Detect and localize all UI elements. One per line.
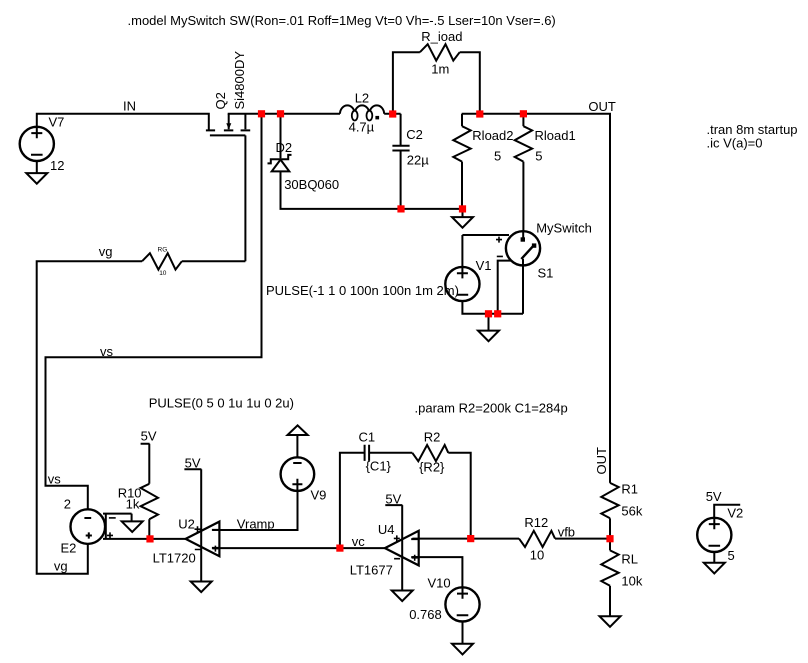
svg-text:Rload2: Rload2 xyxy=(472,128,513,143)
capacitor C1 xyxy=(365,445,370,461)
junction C2 bottom xyxy=(397,205,404,212)
svg-text:OUT: OUT xyxy=(588,99,616,114)
wire U4 supply xyxy=(385,505,402,590)
ground RL xyxy=(600,616,621,627)
svg-text:vs: vs xyxy=(100,344,114,359)
junction V1 rail ground xyxy=(485,310,492,317)
svg-text:D2: D2 xyxy=(276,140,293,155)
wire D2 branch xyxy=(281,114,463,209)
wire R2 to vfb branch xyxy=(448,453,470,539)
transistor Q2 xyxy=(206,114,250,136)
svg-text:12: 12 xyxy=(50,158,64,173)
wire V1 bottom rail xyxy=(462,301,523,314)
wire RL bottom lead xyxy=(609,586,611,616)
svg-text:MySwitch: MySwitch xyxy=(536,221,592,236)
svg-text:0.768: 0.768 xyxy=(409,607,442,622)
svg-text:10: 10 xyxy=(159,270,167,277)
resistor R1 xyxy=(601,483,618,518)
phase dot L2 xyxy=(375,116,379,120)
svg-text:10k: 10k xyxy=(621,573,642,588)
junction R_ioad / rail xyxy=(476,110,483,117)
svg-text:R1: R1 xyxy=(621,482,638,497)
wire OUT rail xyxy=(462,114,610,483)
svg-text:V10: V10 xyxy=(428,576,451,591)
svg-text:LT1677: LT1677 xyxy=(350,562,393,577)
junction S1 control minus xyxy=(494,310,501,317)
wire E2 control minus to ground xyxy=(131,514,133,522)
svg-text:C2: C2 xyxy=(406,127,423,142)
svg-text:vs: vs xyxy=(48,472,62,487)
svg-text:U4: U4 xyxy=(378,522,395,537)
voltage source V2 xyxy=(697,518,731,552)
dependent source E2 xyxy=(71,509,132,544)
svg-text:4.7µ: 4.7µ xyxy=(349,119,375,134)
junction vfb xyxy=(606,535,613,542)
svg-text:R12: R12 xyxy=(524,515,548,530)
svg-text:5V: 5V xyxy=(141,428,157,443)
wire U2 supply xyxy=(184,469,201,581)
ground V2 xyxy=(704,563,725,574)
wire V1 ground stub xyxy=(488,314,490,331)
wire feedback vc to C1 xyxy=(340,453,364,548)
svg-text:2: 2 xyxy=(64,497,71,512)
wire S1 control minus xyxy=(498,261,511,314)
svg-text:.param R2=200k C1=284p: .param R2=200k C1=284p xyxy=(415,401,568,416)
svg-text:1k: 1k xyxy=(126,497,140,512)
svg-text:E2: E2 xyxy=(61,540,77,555)
svg-text:Si4800DY: Si4800DY xyxy=(232,51,247,110)
svg-text:V2: V2 xyxy=(727,505,743,520)
power flag arrow V9 xyxy=(288,425,308,435)
svg-text:Vramp: Vramp xyxy=(237,517,275,532)
svg-text:V1: V1 xyxy=(476,258,492,273)
svg-text:OUT: OUT xyxy=(594,447,609,475)
wire V1 top lead xyxy=(461,235,463,267)
svg-text:.model MySwitch SW(Ron=.01 Rof: .model MySwitch SW(Ron=.01 Roff=1Meg Vt=… xyxy=(128,13,556,28)
wire S1 control plus xyxy=(462,234,509,236)
ground output rail xyxy=(452,217,473,228)
voltage source V10 xyxy=(445,587,479,621)
wire U4 inverting input to R12 xyxy=(412,538,519,540)
svg-text:5V: 5V xyxy=(385,491,401,506)
ground U2 xyxy=(191,582,212,593)
wire Q2 gate lead xyxy=(244,135,246,261)
svg-text:Q2: Q2 xyxy=(213,92,228,109)
svg-text:5: 5 xyxy=(494,149,501,164)
capacitor C2 xyxy=(392,114,409,209)
wire R12 to vfb node xyxy=(555,538,610,540)
ground V10 xyxy=(452,644,473,655)
svg-text:10: 10 xyxy=(530,547,544,562)
resistor R10 xyxy=(141,484,158,519)
svg-text:RG: RG xyxy=(158,246,168,253)
svg-text:{R2}: {R2} xyxy=(419,460,445,475)
ground E2 control xyxy=(122,521,143,532)
svg-text:5V: 5V xyxy=(706,489,722,504)
svg-text:C1: C1 xyxy=(359,430,376,445)
wire V10 bottom lead xyxy=(462,621,464,644)
resistor R2 xyxy=(412,445,448,461)
inductor L2 xyxy=(340,105,384,120)
wire vg from E2 to RG xyxy=(37,261,142,574)
wire vs sense from switch node to E2 xyxy=(46,114,262,510)
switch S1 xyxy=(496,231,540,265)
wire switch-node rail xyxy=(228,113,401,115)
junction ground rail xyxy=(459,205,466,212)
comparator U2 xyxy=(186,522,220,557)
resistor RL xyxy=(601,550,618,585)
svg-text:S1: S1 xyxy=(538,265,554,280)
junction switch node / D2 xyxy=(277,110,284,117)
wire E2 control plus / U2 output xyxy=(103,538,186,540)
resistor Rload1 xyxy=(522,114,524,126)
wire R_ioad branch left xyxy=(393,52,420,114)
junction feedback / R12 xyxy=(467,535,474,542)
svg-text:LT1720: LT1720 xyxy=(153,551,196,566)
wire S1 bottom lead xyxy=(522,259,524,314)
resistor Rload2 xyxy=(461,114,463,126)
svg-text:PULSE(-1 1 0 100n 100n 1m 2m): PULSE(-1 1 0 100n 100n 1m 2m) xyxy=(266,283,459,298)
svg-text:5: 5 xyxy=(535,149,542,164)
wire vc rail U4 out to U2 input xyxy=(213,547,385,549)
svg-text:.ic V(a)=0: .ic V(a)=0 xyxy=(707,135,763,150)
svg-text:5: 5 xyxy=(728,548,735,563)
wire V7 bottom lead xyxy=(36,161,38,174)
wire U4 noninverting input to V10 xyxy=(412,557,462,587)
svg-text:V7: V7 xyxy=(49,114,65,129)
svg-text:30BQ060: 30BQ060 xyxy=(284,177,339,192)
svg-text:{C1}: {C1} xyxy=(366,459,392,474)
resistor R12 xyxy=(519,531,555,547)
svg-text:RL: RL xyxy=(621,552,638,567)
svg-text:R2: R2 xyxy=(424,430,441,445)
svg-text:1m: 1m xyxy=(431,61,449,76)
svg-text:vc: vc xyxy=(352,534,366,549)
svg-text:U2: U2 xyxy=(178,517,195,532)
svg-text:V9: V9 xyxy=(311,488,327,503)
op-amp U4 xyxy=(385,531,419,566)
resistor R_ioad xyxy=(420,44,460,60)
ground V7 xyxy=(26,173,47,184)
wire C1 to R2 xyxy=(370,452,412,454)
wire ground stub xyxy=(462,209,464,217)
svg-text:22µ: 22µ xyxy=(407,153,429,168)
ground U4 xyxy=(392,591,413,602)
ground V1 xyxy=(478,331,499,342)
resistor RG xyxy=(142,253,182,269)
wire U2 inverting input / Vramp xyxy=(213,491,298,530)
junction switch node / vs xyxy=(258,110,265,117)
svg-text:IN: IN xyxy=(123,99,136,114)
diode D2 xyxy=(268,155,292,172)
svg-text:L2: L2 xyxy=(355,91,369,106)
wire V2 bottom lead xyxy=(713,552,715,563)
svg-text:vfb: vfb xyxy=(558,525,575,540)
svg-text:R_ioad: R_ioad xyxy=(421,29,462,44)
junction R10 bottom xyxy=(146,535,153,542)
wire IN from V7 to Q2 drain xyxy=(37,114,209,130)
svg-text:56k: 56k xyxy=(621,503,642,518)
junction Rload1 top xyxy=(520,110,527,117)
junction vc feedback xyxy=(336,545,343,552)
svg-text:PULSE(0 5 0 1u 1u 0 2u): PULSE(0 5 0 1u 1u 0 2u) xyxy=(149,396,294,411)
junction L2/C2 node xyxy=(389,110,396,117)
svg-text:vg: vg xyxy=(54,559,68,574)
svg-text:Rload1: Rload1 xyxy=(535,128,576,143)
wire R_ioad branch right xyxy=(460,52,480,114)
svg-text:vg: vg xyxy=(99,244,113,259)
voltage source V9 xyxy=(281,457,315,491)
voltage source V7 xyxy=(20,127,54,161)
wire V9 top lead xyxy=(296,435,298,457)
wire RG to gate xyxy=(182,260,246,262)
voltage source V1 xyxy=(445,267,479,301)
wire R1 to vfb node xyxy=(609,518,611,550)
